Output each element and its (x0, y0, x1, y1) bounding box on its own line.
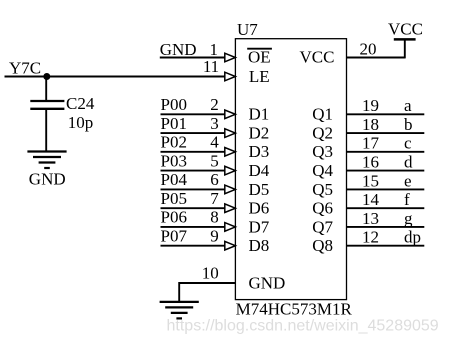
svg-text:P06: P06 (161, 208, 187, 227)
svg-text:6: 6 (210, 170, 219, 189)
svg-text:Q7: Q7 (312, 217, 333, 236)
svg-text:M74HC573M1R: M74HC573M1R (236, 300, 353, 319)
svg-text:7: 7 (210, 189, 219, 208)
svg-text:Q5: Q5 (312, 180, 333, 199)
svg-text:Q6: Q6 (312, 199, 333, 218)
svg-text:g: g (404, 209, 413, 228)
svg-text:P03: P03 (161, 151, 187, 170)
svg-text:https://blog.csdn.net/weixin_4: https://blog.csdn.net/weixin_45289059 (167, 318, 439, 335)
svg-text:P07: P07 (161, 226, 188, 245)
svg-text:D4: D4 (249, 161, 270, 180)
svg-text:Q4: Q4 (312, 161, 333, 180)
svg-text:19: 19 (362, 96, 379, 115)
svg-text:Q3: Q3 (312, 142, 333, 161)
svg-text:c: c (404, 134, 412, 153)
svg-text:8: 8 (210, 208, 219, 227)
svg-text:Y7C: Y7C (9, 59, 41, 78)
svg-text:D7: D7 (249, 217, 270, 236)
svg-text:VCC: VCC (300, 48, 335, 67)
svg-text:D6: D6 (249, 199, 270, 218)
svg-text:OE: OE (248, 48, 271, 67)
svg-text:e: e (404, 171, 412, 190)
svg-text:VCC: VCC (388, 19, 423, 38)
svg-text:10: 10 (202, 264, 219, 283)
svg-text:D8: D8 (249, 236, 270, 255)
svg-text:f: f (404, 190, 410, 209)
svg-text:GND: GND (249, 273, 286, 292)
svg-text:Q8: Q8 (312, 236, 333, 255)
svg-text:C24: C24 (66, 94, 95, 113)
svg-text:5: 5 (210, 151, 219, 170)
svg-text:11: 11 (203, 57, 219, 76)
svg-text:P02: P02 (161, 133, 187, 152)
svg-text:a: a (404, 96, 412, 115)
svg-text:16: 16 (362, 153, 379, 172)
svg-text:D5: D5 (249, 180, 270, 199)
svg-text:P04: P04 (161, 170, 188, 189)
svg-text:GND: GND (29, 170, 66, 189)
svg-text:18: 18 (362, 115, 379, 134)
svg-text:P00: P00 (161, 95, 187, 114)
svg-text:4: 4 (210, 133, 219, 152)
svg-text:Q1: Q1 (312, 105, 333, 124)
svg-text:15: 15 (362, 171, 379, 190)
svg-text:D1: D1 (249, 105, 270, 124)
svg-text:dp: dp (404, 228, 421, 247)
svg-text:17: 17 (362, 134, 380, 153)
svg-text:2: 2 (210, 95, 219, 114)
svg-text:P05: P05 (161, 189, 187, 208)
svg-text:LE: LE (249, 67, 270, 86)
svg-text:d: d (404, 153, 413, 172)
svg-text:GND: GND (160, 40, 197, 59)
svg-text:Q2: Q2 (312, 124, 333, 143)
svg-text:9: 9 (210, 226, 219, 245)
svg-text:10p: 10p (68, 113, 94, 132)
svg-text:3: 3 (210, 114, 219, 133)
svg-text:14: 14 (362, 190, 380, 209)
svg-text:P01: P01 (161, 114, 187, 133)
svg-text:20: 20 (360, 40, 377, 59)
svg-text:U7: U7 (237, 20, 258, 39)
svg-text:b: b (404, 115, 413, 134)
svg-text:D2: D2 (249, 124, 270, 143)
svg-text:12: 12 (362, 228, 379, 247)
svg-text:D3: D3 (249, 142, 270, 161)
svg-text:13: 13 (362, 209, 379, 228)
